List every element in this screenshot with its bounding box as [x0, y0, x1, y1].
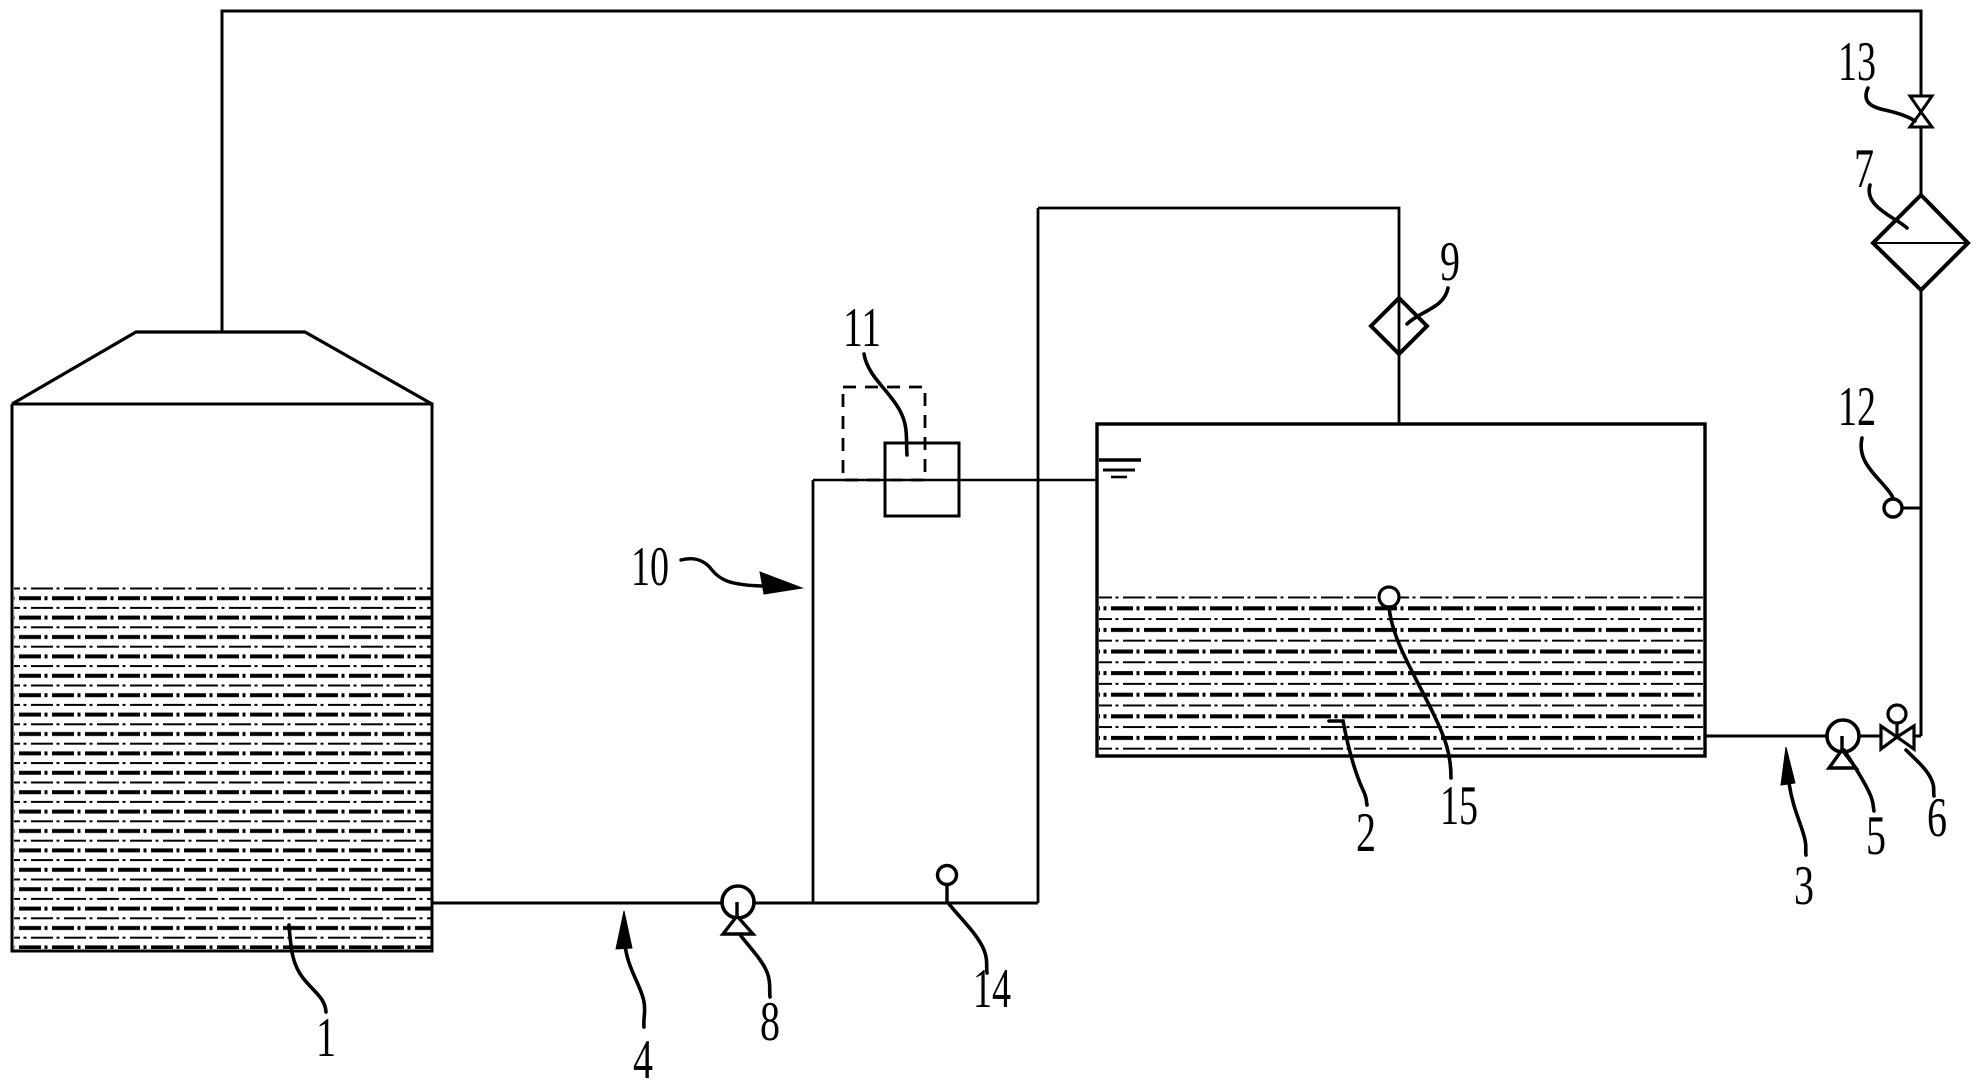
- tank 1 liquid: [14, 587, 431, 949]
- valve 13: [1910, 96, 1932, 127]
- label 15: [1389, 607, 1451, 778]
- tank 2: [1097, 424, 1705, 756]
- svg-text:5: 5: [1866, 805, 1886, 867]
- label 8: [741, 936, 770, 997]
- svg-text:8: 8: [760, 991, 780, 1053]
- tank 1 roof: [12, 332, 432, 404]
- svg-text:4: 4: [633, 1029, 653, 1082]
- svg-text:2: 2: [1356, 802, 1376, 864]
- svg-text:3: 3: [1794, 855, 1814, 917]
- label 6: [1906, 750, 1934, 796]
- label 1: [289, 925, 326, 1012]
- pump 5: [1827, 720, 1859, 768]
- check valve 9 (diamond): [1371, 298, 1427, 354]
- svg-text:1: 1: [316, 1007, 336, 1069]
- level sensor 15: [1379, 587, 1399, 607]
- wire: top pipe from tank1 roof up and across to right side: [222, 11, 1921, 332]
- svg-text:6: 6: [1927, 787, 1947, 849]
- label 11: [864, 354, 907, 455]
- label 2: [1329, 721, 1367, 805]
- svg-text:15: 15: [1440, 775, 1478, 837]
- valve 6: [1881, 705, 1914, 749]
- svg-text:12: 12: [1838, 376, 1876, 438]
- dashed box (level control): [843, 387, 925, 480]
- label 7: [1869, 185, 1907, 228]
- svg-text:7: 7: [1854, 138, 1874, 200]
- svg-text:11: 11: [843, 297, 881, 359]
- wire: column right wall / riser: [1037, 208, 1040, 903]
- sample point 14: [938, 866, 957, 904]
- wire: bottom pipe tank1 to column: [432, 902, 1038, 905]
- label 9: [1407, 288, 1448, 324]
- column 10 (degassing tower): [812, 480, 815, 903]
- sample point 12: [1884, 499, 1921, 517]
- label 13: [1866, 88, 1915, 121]
- label 4 (arrow): [625, 944, 645, 1027]
- water level symbol: [1099, 460, 1141, 477]
- svg-text:14: 14: [973, 958, 1011, 1020]
- box 11: [885, 443, 959, 516]
- label 3 (arrow): [1789, 783, 1806, 855]
- wire: tank 2 outlet to right riser: [1705, 735, 1921, 738]
- svg-text:10: 10: [631, 536, 669, 598]
- tank 1 body: [12, 404, 432, 951]
- wire: top line from riser to tank 2 drop: [1038, 208, 1399, 424]
- label 14: [949, 904, 987, 973]
- label 5: [1844, 750, 1874, 811]
- wire: column top overflow line into tank 2: [813, 479, 1097, 482]
- svg-text:9: 9: [1440, 231, 1460, 293]
- svg-text:13: 13: [1838, 31, 1876, 93]
- pump 8: [722, 886, 754, 934]
- tank 2 liquid: [1099, 596, 1703, 754]
- label 12: [1861, 438, 1893, 498]
- filter 7 (diamond): [1873, 195, 1968, 290]
- wire: right riser: [1920, 290, 1923, 736]
- wire: valve 13 to filter 7: [1920, 127, 1923, 196]
